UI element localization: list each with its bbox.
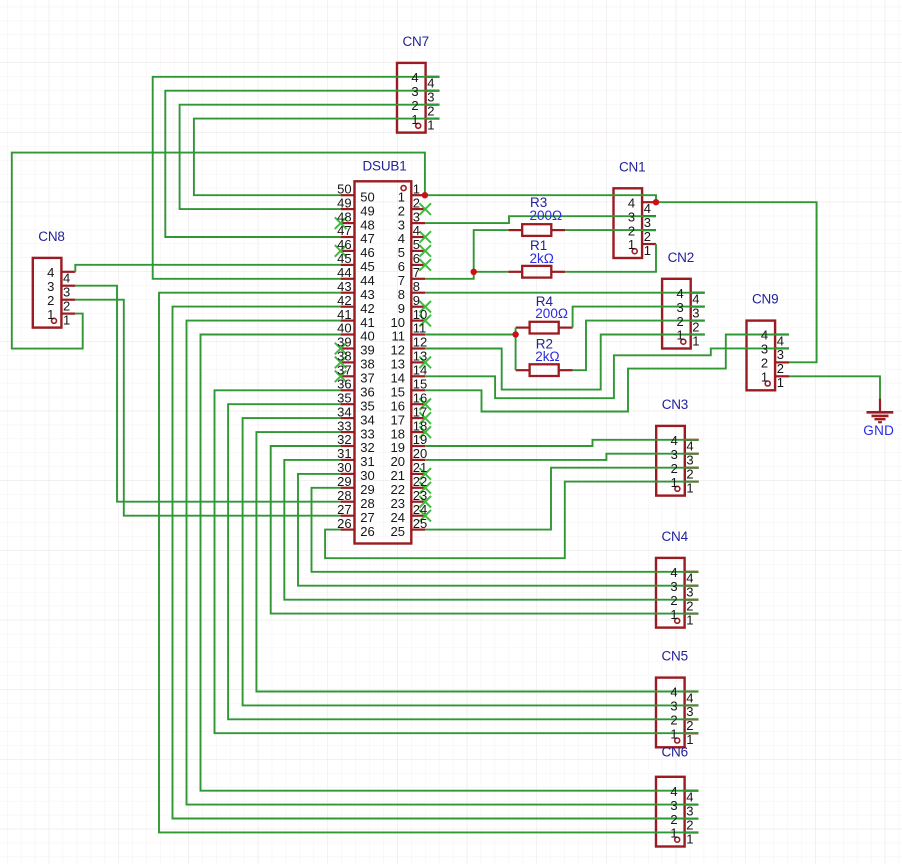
svg-text:1: 1: [628, 237, 635, 252]
svg-text:CN8: CN8: [38, 229, 64, 244]
svg-text:3: 3: [628, 209, 635, 224]
wire DSUB.25 to CN3.2: [425, 468, 699, 530]
svg-text:23: 23: [391, 496, 405, 511]
svg-text:1: 1: [676, 328, 683, 343]
svg-text:50: 50: [337, 181, 351, 196]
svg-text:11: 11: [392, 329, 406, 344]
svg-text:GND: GND: [863, 423, 894, 438]
svg-text:8: 8: [398, 287, 405, 302]
svg-text:40: 40: [360, 329, 374, 344]
wire CN8.2 to DSUB.27: [75, 300, 340, 516]
svg-text:18: 18: [391, 426, 405, 441]
svg-text:3: 3: [670, 579, 677, 594]
wire DSUB.43 to CN6.1: [159, 293, 699, 833]
CN3 pin numbers: [671, 433, 694, 495]
svg-text:41: 41: [360, 315, 374, 330]
svg-text:2: 2: [671, 461, 678, 476]
svg-text:47: 47: [337, 223, 351, 238]
svg-text:1: 1: [47, 307, 54, 322]
svg-text:19: 19: [413, 432, 427, 447]
wire DSUB.35 to CN5.2: [228, 404, 698, 719]
svg-text:1: 1: [670, 826, 677, 841]
svg-text:29: 29: [360, 482, 374, 497]
ground symbol GND: [867, 398, 894, 422]
svg-text:2: 2: [628, 223, 635, 238]
svg-text:3: 3: [427, 90, 434, 105]
svg-text:4: 4: [686, 690, 693, 705]
svg-text:31: 31: [360, 454, 374, 469]
wire R1 right to CN1.1: [565, 244, 656, 272]
wire junction up to R3 left: [474, 230, 509, 272]
svg-text:8: 8: [413, 279, 420, 294]
svg-text:4: 4: [47, 265, 54, 280]
svg-text:1: 1: [411, 112, 418, 127]
svg-text:16: 16: [391, 398, 405, 413]
svg-text:4: 4: [692, 292, 699, 307]
svg-text:31: 31: [337, 446, 351, 461]
CN5 pin numbers: [670, 685, 693, 747]
svg-text:2: 2: [411, 98, 418, 113]
svg-text:28: 28: [360, 496, 374, 511]
svg-text:27: 27: [337, 502, 351, 517]
svg-text:2: 2: [686, 718, 693, 733]
wire DSUB.12 to CN2.1: [425, 335, 705, 390]
svg-text:3: 3: [398, 217, 405, 232]
svg-text:2kΩ: 2kΩ: [535, 349, 559, 364]
svg-text:24: 24: [391, 510, 405, 525]
svg-text:13: 13: [391, 357, 405, 372]
svg-text:CN7: CN7: [403, 34, 429, 49]
svg-text:22: 22: [413, 474, 427, 489]
svg-text:3: 3: [686, 453, 693, 468]
no-connect crosses DSUB left pins: [335, 217, 347, 382]
svg-text:17: 17: [391, 412, 405, 427]
svg-text:13: 13: [413, 349, 427, 364]
wire CN8.3 to DSUB.28: [75, 286, 340, 502]
svg-text:2: 2: [686, 599, 693, 614]
junction at DSUB.1: [422, 192, 428, 198]
svg-text:1: 1: [686, 612, 693, 627]
wire DSUB.20 to CN3.3: [425, 454, 699, 460]
svg-text:18: 18: [413, 418, 427, 433]
svg-text:3: 3: [644, 215, 651, 230]
wire DSUB.19 to CN3.4: [425, 440, 699, 446]
CN6 pin numbers: [670, 784, 693, 846]
svg-text:3: 3: [676, 300, 683, 315]
wire DSUB.15 to CN9.4: [425, 335, 789, 412]
svg-text:37: 37: [337, 363, 351, 378]
svg-text:2: 2: [413, 195, 420, 210]
svg-text:3: 3: [670, 798, 677, 813]
svg-text:42: 42: [360, 301, 374, 316]
svg-text:46: 46: [360, 245, 374, 260]
svg-text:2: 2: [670, 713, 677, 728]
svg-text:CN9: CN9: [752, 292, 778, 307]
svg-text:1: 1: [777, 375, 784, 390]
wire DSUB.32 to CN4.1: [271, 446, 699, 614]
svg-text:CN3: CN3: [662, 397, 688, 412]
wire DSUB.14 to CN9.3: [425, 348, 789, 398]
CN4 pin numbers: [670, 565, 693, 627]
svg-text:32: 32: [360, 440, 374, 455]
svg-text:48: 48: [337, 209, 351, 224]
svg-text:4: 4: [670, 784, 677, 799]
svg-text:4: 4: [413, 223, 420, 238]
svg-text:3: 3: [686, 704, 693, 719]
wire CN7.4 to DSUB.44: [153, 77, 440, 279]
svg-text:4: 4: [761, 328, 768, 343]
wire DSUB.34 to CN5.3: [243, 418, 699, 705]
svg-text:4: 4: [670, 565, 677, 580]
svg-text:10: 10: [413, 307, 427, 322]
svg-text:30: 30: [360, 468, 374, 483]
svg-text:4: 4: [671, 433, 678, 448]
svg-text:22: 22: [391, 482, 405, 497]
svg-text:15: 15: [391, 385, 405, 400]
svg-text:3: 3: [671, 447, 678, 462]
svg-text:4: 4: [676, 286, 683, 301]
junction at R1/R3 (DSUB.7): [471, 269, 477, 275]
svg-text:1: 1: [63, 312, 70, 327]
svg-text:4: 4: [777, 333, 784, 348]
svg-text:25: 25: [391, 524, 405, 539]
svg-text:20: 20: [391, 454, 405, 469]
svg-text:3: 3: [411, 84, 418, 99]
connector CN2: [662, 279, 705, 349]
svg-text:26: 26: [360, 524, 374, 539]
svg-text:16: 16: [413, 390, 427, 405]
svg-text:1: 1: [644, 243, 651, 258]
svg-text:1: 1: [398, 189, 405, 204]
svg-text:2: 2: [63, 299, 70, 314]
connector CN5: [656, 678, 699, 748]
wire R3 right to CN1.2: [565, 229, 656, 231]
svg-text:11: 11: [413, 321, 427, 336]
svg-text:34: 34: [337, 404, 351, 419]
svg-text:3: 3: [777, 347, 784, 362]
svg-text:1: 1: [671, 475, 678, 490]
svg-text:2: 2: [47, 293, 54, 308]
svg-text:3: 3: [761, 342, 768, 357]
resistor R1: [508, 266, 565, 278]
wire DSUB.8 to CN2.4: [425, 292, 705, 294]
wire CN9.1 to GND: [789, 376, 880, 399]
wire DSUB.11 to junction at R4/R2: [425, 334, 515, 336]
svg-text:33: 33: [337, 418, 351, 433]
svg-text:1: 1: [692, 333, 699, 348]
svg-text:1: 1: [686, 831, 693, 846]
svg-text:34: 34: [360, 412, 374, 427]
svg-text:38: 38: [360, 357, 374, 372]
svg-text:15: 15: [413, 377, 427, 392]
svg-text:2: 2: [686, 817, 693, 832]
wire R4 left to R2 left (vertical through junction): [515, 328, 517, 371]
connector CN3: [656, 426, 699, 496]
svg-text:4: 4: [628, 195, 635, 210]
wire DSUB.29 to CN4.4: [312, 488, 699, 572]
svg-text:7: 7: [413, 265, 420, 280]
svg-text:12: 12: [391, 343, 405, 358]
junction at CN1.4: [653, 199, 659, 205]
svg-text:50: 50: [360, 189, 374, 204]
svg-text:CN6: CN6: [662, 745, 688, 760]
svg-text:6: 6: [398, 259, 405, 274]
resistor R4: [516, 322, 573, 334]
junction at R4/R2 (DSUB.11): [512, 331, 518, 337]
svg-text:28: 28: [337, 488, 351, 503]
svg-text:19: 19: [391, 440, 405, 455]
svg-text:35: 35: [337, 390, 351, 405]
svg-text:43: 43: [360, 287, 374, 302]
svg-text:43: 43: [337, 279, 351, 294]
svg-text:3: 3: [692, 305, 699, 320]
DSUB1 left pin numbers: [337, 181, 375, 538]
svg-text:25: 25: [413, 516, 427, 531]
svg-text:17: 17: [413, 404, 427, 419]
wire DSUB.33 to CN5.4: [256, 432, 698, 691]
connector CN4: [656, 558, 699, 628]
svg-text:9: 9: [413, 293, 420, 308]
svg-text:4: 4: [644, 201, 651, 216]
svg-text:21: 21: [413, 460, 427, 475]
svg-text:200Ω: 200Ω: [535, 306, 568, 321]
svg-text:41: 41: [337, 307, 351, 322]
svg-text:2: 2: [670, 593, 677, 608]
svg-text:36: 36: [337, 377, 351, 392]
svg-text:24: 24: [413, 502, 427, 517]
svg-text:2: 2: [692, 319, 699, 334]
wire junction to R1 left: [474, 271, 509, 273]
svg-text:3: 3: [686, 585, 693, 600]
svg-text:37: 37: [360, 371, 374, 386]
svg-text:1: 1: [670, 727, 677, 742]
svg-text:CN4: CN4: [662, 529, 689, 544]
wire net N1: CN8.1 loop to DSUB.1: [12, 153, 425, 349]
wire DSUB.7 to junction: [425, 272, 474, 279]
svg-text:14: 14: [391, 371, 405, 386]
wire DSUB.41 to CN6.3: [187, 321, 699, 805]
wire DSUB.26 to CN3.1: [325, 482, 699, 559]
svg-text:4: 4: [670, 685, 677, 700]
svg-text:36: 36: [360, 385, 374, 400]
svg-text:45: 45: [337, 251, 351, 266]
svg-text:3: 3: [63, 285, 70, 300]
svg-text:1: 1: [761, 370, 768, 385]
svg-text:39: 39: [337, 335, 351, 350]
wire DSUB.42 to CN6.2: [173, 307, 699, 819]
svg-text:2: 2: [398, 203, 405, 218]
svg-text:44: 44: [337, 265, 351, 280]
svg-text:7: 7: [398, 273, 405, 288]
svg-text:49: 49: [337, 195, 351, 210]
wire DSUB.31 to CN4.2: [284, 460, 698, 600]
svg-text:2: 2: [427, 104, 434, 119]
svg-text:2: 2: [670, 812, 677, 827]
svg-text:27: 27: [360, 510, 374, 525]
wire CN7.2 to DSUB.49: [180, 105, 440, 209]
svg-text:2: 2: [761, 356, 768, 371]
svg-text:6: 6: [413, 251, 420, 266]
wire DSUB.30 to CN4.3: [298, 474, 699, 586]
svg-text:2: 2: [777, 361, 784, 376]
svg-text:40: 40: [337, 321, 351, 336]
CN2 pin numbers: [676, 286, 699, 348]
resistor R3: [508, 224, 565, 236]
svg-text:4: 4: [686, 439, 693, 454]
CN7 pin numbers: [411, 70, 434, 132]
connector CN7: [397, 63, 440, 133]
wire CN7.1 to DSUB.50: [194, 119, 439, 196]
resistor R2: [516, 364, 573, 376]
svg-text:29: 29: [337, 474, 351, 489]
svg-text:49: 49: [360, 203, 374, 218]
svg-text:47: 47: [360, 231, 374, 246]
svg-text:4: 4: [686, 790, 693, 805]
svg-text:2: 2: [644, 229, 651, 244]
svg-text:23: 23: [413, 488, 427, 503]
no-connect crosses DSUB right pins: [419, 203, 431, 521]
connector CN9: [747, 321, 790, 391]
svg-text:45: 45: [360, 259, 374, 274]
svg-text:2: 2: [686, 467, 693, 482]
svg-text:12: 12: [413, 335, 427, 350]
svg-text:1: 1: [427, 117, 434, 132]
svg-text:1: 1: [413, 181, 420, 196]
wire CN8.4 to DSUB.45: [75, 265, 340, 272]
wire R2 right to CN2.2: [573, 321, 705, 371]
connector CN1: [614, 188, 657, 258]
svg-text:39: 39: [360, 343, 374, 358]
svg-text:3: 3: [686, 803, 693, 818]
connector CN8: [33, 258, 76, 328]
svg-text:3: 3: [47, 279, 54, 294]
svg-text:4: 4: [427, 76, 434, 91]
svg-text:21: 21: [391, 468, 405, 483]
svg-text:44: 44: [360, 273, 374, 288]
wire CN7.3 to DSUB.47: [165, 91, 439, 237]
CN1 pin numbers: [628, 195, 651, 257]
svg-text:2kΩ: 2kΩ: [530, 251, 554, 266]
svg-text:5: 5: [413, 237, 420, 252]
svg-text:14: 14: [413, 363, 427, 378]
svg-text:32: 32: [337, 432, 351, 447]
wire net N1: CN1.4 to CN9.2: [656, 202, 817, 362]
svg-text:33: 33: [360, 426, 374, 441]
svg-text:200Ω: 200Ω: [530, 208, 563, 223]
svg-text:1: 1: [686, 480, 693, 495]
svg-text:48: 48: [360, 217, 374, 232]
wire DSUB.36 to CN5.1: [215, 390, 699, 733]
CN9 pin numbers: [761, 328, 784, 390]
wire R4 right to CN2.3: [573, 307, 705, 328]
svg-text:CN5: CN5: [662, 649, 688, 664]
svg-text:4: 4: [63, 271, 70, 286]
svg-text:CN1: CN1: [619, 159, 645, 174]
connector DSUB1 (50-pin): [341, 181, 426, 543]
svg-text:CN2: CN2: [668, 250, 694, 265]
svg-text:35: 35: [360, 398, 374, 413]
svg-text:5: 5: [398, 245, 405, 260]
svg-text:4: 4: [686, 571, 693, 586]
svg-text:3: 3: [413, 209, 420, 224]
svg-text:42: 42: [337, 293, 351, 308]
DSUB1 right pin numbers: [391, 181, 428, 538]
wire DSUB.3 to CN1.3: [425, 216, 656, 223]
svg-text:2: 2: [676, 314, 683, 329]
svg-text:4: 4: [411, 70, 418, 85]
CN8 pin numbers: [47, 265, 70, 327]
connector CN6: [656, 777, 699, 847]
svg-text:46: 46: [337, 237, 351, 252]
svg-text:3: 3: [670, 699, 677, 714]
svg-text:1: 1: [670, 607, 677, 622]
svg-text:30: 30: [337, 460, 351, 475]
svg-text:26: 26: [337, 516, 351, 531]
wire net N1: DSUB.1 to CN1.4: [425, 195, 656, 202]
svg-text:20: 20: [413, 446, 427, 461]
svg-text:38: 38: [337, 349, 351, 364]
svg-text:DSUB1: DSUB1: [363, 159, 407, 174]
svg-text:10: 10: [391, 315, 405, 330]
wire DSUB.40 to CN6.4: [201, 335, 699, 791]
svg-text:9: 9: [398, 301, 405, 316]
svg-text:4: 4: [398, 231, 405, 246]
